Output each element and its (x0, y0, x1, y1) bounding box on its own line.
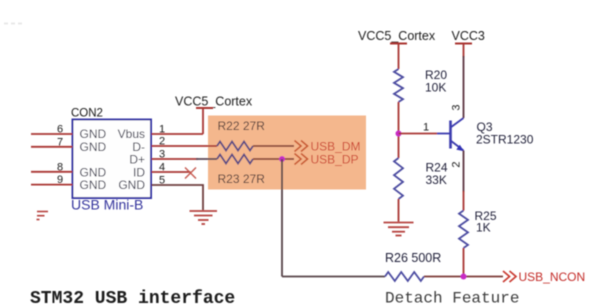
svg-text:10K: 10K (425, 81, 446, 95)
svg-text:Detach Feature: Detach Feature (385, 290, 519, 308)
svg-text:USB Mini-B: USB Mini-B (71, 197, 143, 213)
highlight box (orange) (208, 116, 366, 190)
svg-text:USB_DM: USB_DM (311, 140, 361, 154)
wire D+ branch down (281, 159, 283, 277)
resistor R25 (459, 211, 468, 249)
node junction on D+ (279, 156, 285, 162)
port chevron USB_NCON (503, 271, 516, 282)
wire pin1 (Vbus) (152, 133, 204, 135)
svg-text:VCC5_Cortex: VCC5_Cortex (358, 29, 436, 43)
wire R23 to port (253, 158, 294, 160)
resistor R24 (394, 158, 403, 199)
svg-text:USB_DP: USB_DP (311, 153, 359, 167)
ground (small, left of connector) (37, 212, 49, 220)
svg-text:VCC3: VCC3 (452, 29, 485, 43)
connector CON2 body (73, 120, 152, 199)
wire base (399, 133, 438, 135)
wire R24 to ground (398, 199, 400, 222)
svg-text:GND: GND (80, 178, 107, 192)
svg-text:R23 27R: R23 27R (218, 172, 266, 186)
resistor R22 (217, 142, 253, 151)
wire pin7 (31, 146, 73, 148)
svg-text:2STR1230: 2STR1230 (476, 133, 534, 147)
svg-text:R26 500R: R26 500R (385, 251, 441, 265)
svg-text:2: 2 (159, 136, 165, 148)
transistor Q3 (437, 118, 464, 151)
resistor R26 (385, 272, 424, 281)
resistor R23 (217, 155, 253, 164)
ground (below pin5) (190, 211, 218, 224)
wire VCC3 to collector (463, 44, 465, 58)
wire pin3 (D+) (152, 158, 199, 160)
port chevron USB_DM (295, 141, 308, 152)
svg-text:5: 5 (159, 175, 165, 187)
wire pin9 (31, 184, 73, 186)
svg-text:3: 3 (159, 149, 165, 161)
svg-text:CON2: CON2 (71, 108, 103, 120)
wire pin4 (ID) (152, 171, 191, 173)
wire bottom horizontal to R26 (282, 276, 385, 278)
svg-text:9: 9 (57, 174, 63, 186)
svg-text:33K: 33K (426, 173, 447, 187)
svg-text:1: 1 (159, 124, 165, 136)
svg-text:GND: GND (118, 178, 145, 192)
node junction at base rail (396, 131, 402, 137)
svg-text:1: 1 (423, 122, 429, 134)
svg-text:4: 4 (159, 162, 165, 174)
wire pin8 (31, 171, 73, 173)
wire R22 to port (253, 145, 294, 147)
ground (below R24) (384, 223, 414, 236)
faint stray marks top-left (4, 23, 22, 25)
port chevron USB_DP (295, 154, 308, 165)
no-connect X on pin4 (185, 168, 196, 179)
wire pin5 (GND) to ground (152, 185, 204, 210)
svg-text:R22 27R: R22 27R (218, 119, 266, 133)
svg-text:8: 8 (57, 161, 63, 173)
resistor R20 (394, 69, 403, 102)
wire pin6 (31, 133, 73, 135)
node junction at R25/rail (461, 274, 467, 280)
wire R20 to junction (398, 102, 400, 158)
wire pin2 (D-) (152, 145, 218, 147)
wire R26 to port (424, 276, 503, 278)
svg-text:USB_NCON: USB_NCON (519, 270, 586, 284)
svg-text:GND: GND (80, 140, 107, 154)
svg-text:6: 6 (57, 124, 63, 136)
svg-text:1K: 1K (476, 221, 491, 235)
svg-text:2: 2 (451, 161, 463, 167)
wire emitter down (463, 151, 465, 193)
svg-text:STM32 USB interface: STM32 USB interface (30, 289, 235, 308)
svg-text:3: 3 (451, 104, 463, 110)
wire R25 to bottom rail (463, 248, 465, 277)
svg-text:7: 7 (57, 136, 63, 148)
svg-text:VCC5_Cortex: VCC5_Cortex (175, 95, 253, 109)
